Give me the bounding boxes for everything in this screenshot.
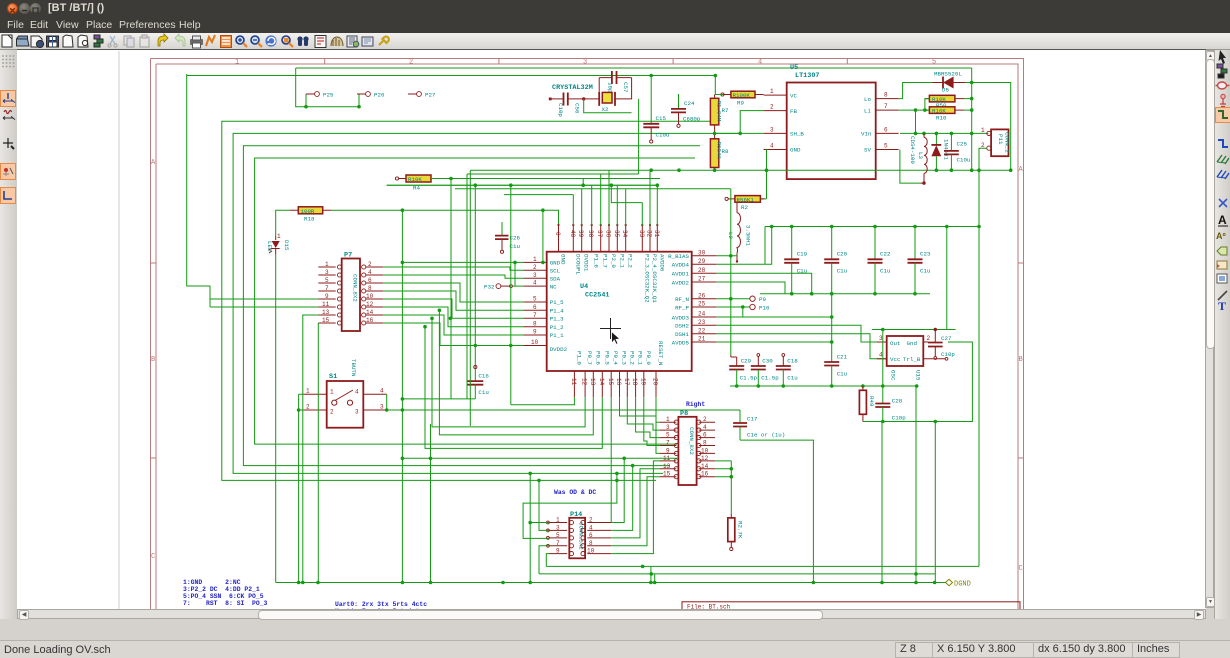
wire P25 drop (296, 68, 359, 107)
paper left edge (118, 51, 120, 609)
svg-text:10: 10 (701, 447, 709, 454)
resistor R10 (925, 107, 964, 122)
svg-text:P0_6: P0_6 (594, 351, 601, 365)
wire P14.4 right up (611, 466, 633, 531)
svg-text:2: 2 (330, 409, 334, 416)
wire C17 bottom (740, 440, 813, 582)
svg-text:SV: SV (864, 147, 871, 154)
svg-text:4: 4 (368, 269, 372, 276)
svg-text:SCL: SCL (550, 267, 561, 274)
svg-text:U5: U5 (790, 64, 798, 72)
svg-text:5: 5 (533, 296, 537, 303)
svg-text:FB: FB (790, 108, 797, 115)
svg-text:35: 35 (613, 230, 620, 238)
svg-text:10: 10 (531, 339, 539, 346)
wire P32 to NC (513, 285, 524, 287)
svg-text:A: A (151, 159, 156, 167)
resistor R18 (290, 207, 332, 223)
svg-text:DSH2: DSH2 (675, 323, 689, 330)
capacitor C57 (607, 71, 630, 93)
svg-text:C22: C22 (880, 251, 891, 258)
svg-text:LT1307: LT1307 (795, 72, 819, 80)
svg-text:9: 9 (556, 548, 560, 555)
svg-text:33: 33 (638, 230, 645, 238)
capacitor C23 (908, 227, 931, 294)
svg-text:R7: R7 (722, 107, 729, 114)
bus loop wire 4 (243, 146, 700, 466)
svg-text:C1u: C1u (837, 268, 847, 275)
svg-text:D5: D5 (942, 87, 949, 94)
wire long vertical x467 (466, 174, 468, 399)
wire chip pin20 to P8.9 (656, 397, 660, 453)
svg-text:C57: C57 (622, 82, 629, 93)
svg-text:12: 12 (581, 378, 588, 386)
svg-text:B: B (151, 356, 155, 364)
svg-text:1: 1 (306, 388, 310, 395)
svg-text:C1u: C1u (787, 375, 797, 382)
svg-text:GND: GND (560, 254, 567, 265)
svg-text:C29: C29 (741, 358, 752, 365)
wire P7.2 to U4 SCL (383, 267, 523, 270)
svg-text:P1_0: P1_0 (575, 351, 582, 365)
svg-text:C18: C18 (787, 358, 798, 365)
svg-text:CONN_2: CONN_2 (1004, 132, 1011, 153)
wire AVDD drop left (765, 170, 979, 264)
connector P8 (660, 410, 715, 485)
rail y385 (730, 386, 917, 583)
svg-text:AVDD3: AVDD3 (672, 314, 690, 321)
svg-text:P1_3: P1_3 (550, 316, 564, 323)
svg-text:RESET_N: RESET_N (657, 341, 664, 366)
svg-text:P2_1: P2_1 (618, 254, 625, 268)
resistor R8 (710, 133, 729, 170)
svg-text:1: 1 (330, 389, 334, 396)
svg-text:12: 12 (701, 455, 709, 462)
svg-text:MBRS520L: MBRS520L (934, 71, 962, 78)
svg-text:DCOUPL: DCOUPL (574, 254, 581, 275)
U4 bottom pin stubs (574, 371, 656, 397)
wire DSH1 to OSC (717, 334, 887, 359)
wire AVDD4 up (717, 227, 772, 265)
svg-text:5: 5 (932, 59, 936, 67)
connector P11 (981, 127, 1011, 156)
svg-text:1: 1 (770, 88, 774, 95)
wire S1 right to C17 (387, 409, 740, 411)
wire P14.5 left loop (523, 473, 617, 538)
svg-text:R56K1: R56K1 (737, 196, 755, 203)
svg-text:2: 2 (368, 261, 372, 268)
svg-text:22: 22 (698, 327, 706, 334)
wire chip pin14 (425, 327, 602, 449)
svg-text:A: A (1019, 166, 1024, 174)
wire crystal net (550, 78, 631, 99)
cursor crosshair (600, 318, 621, 339)
svg-text:P32: P32 (484, 283, 495, 290)
svg-text:U15: U15 (915, 370, 922, 381)
wire chip pin11 (511, 397, 575, 405)
svg-text:C27: C27 (941, 335, 952, 342)
wire S1 left link down (299, 394, 304, 582)
svg-text:C10p: C10p (892, 415, 906, 422)
svg-text:13: 13 (322, 309, 330, 316)
svg-text:L3: L3 (917, 152, 924, 159)
wire top rail down right (971, 68, 973, 170)
svg-text:2: 2 (589, 517, 593, 524)
diode D5 MBRS520L (932, 71, 966, 94)
wire Li net (899, 99, 972, 111)
wire second top rail (187, 75, 716, 77)
wire OSC feed from AVDD rail (946, 227, 948, 330)
svg-text:Vcc: Vcc (890, 356, 901, 363)
svg-text:C10u: C10u (656, 132, 670, 139)
svg-text:1: 1 (666, 416, 670, 423)
rail y565 (546, 227, 979, 567)
wire Lo up (899, 83, 933, 99)
svg-text:3:P2_2 DC 4:DD P2_1: 3:P2_2 DC 4:DD P2_1 (183, 586, 260, 593)
svg-text:R10K: R10K (932, 108, 946, 115)
svg-text:P27: P27 (425, 91, 436, 98)
svg-text:10: 10 (587, 548, 595, 555)
capacitor C24 (671, 94, 701, 127)
svg-text:C20: C20 (837, 251, 848, 258)
svg-text:2: 2 (306, 404, 310, 411)
push button S1 (303, 359, 386, 428)
svg-text:25: 25 (698, 301, 706, 308)
bus loop wire 2 (222, 121, 712, 480)
wire AVDD3 (717, 316, 832, 318)
rail y573 (539, 573, 935, 575)
svg-text:NC: NC (550, 283, 557, 290)
wire long vertical x451 (450, 179, 452, 399)
svg-text:C: C (1019, 565, 1023, 573)
svg-text:C: C (151, 553, 155, 561)
capacitor C21 (824, 354, 847, 387)
inductor L3 (909, 133, 927, 184)
svg-text:TBUTN: TBUTN (350, 359, 357, 377)
svg-text:CRYSTAL32M: CRYSTAL32M (552, 84, 593, 92)
capacitor C18 (776, 354, 798, 386)
svg-text:7: 7 (533, 312, 537, 319)
connector P32 (484, 283, 512, 290)
svg-text:S1: S1 (329, 373, 337, 381)
svg-text:C56: C56 (574, 103, 581, 114)
wire P14.3 left up (539, 480, 549, 530)
wire P7.8 staircase (383, 291, 523, 310)
svg-text:AVDD4: AVDD4 (672, 262, 690, 269)
svg-text:13: 13 (589, 378, 596, 386)
wire FB net (715, 111, 764, 134)
svg-text:P9: P9 (759, 296, 766, 303)
junction crystal (582, 97, 585, 100)
svg-text:3: 3 (533, 272, 537, 279)
svg-text:15: 15 (663, 471, 671, 478)
connector P7 (318, 252, 383, 332)
connector P9 (717, 296, 767, 303)
wire GND row (402, 261, 523, 263)
svg-text:C24: C24 (684, 100, 695, 107)
svg-text:R9: R9 (737, 100, 744, 107)
svg-text:3: 3 (355, 409, 359, 416)
capacitor C17 (733, 410, 785, 440)
capacitor C22 (868, 227, 891, 294)
wire to P7 pin11 (210, 299, 318, 307)
svg-text:16: 16 (615, 378, 622, 386)
svg-text:21: 21 (698, 336, 706, 343)
svg-text:2: 2 (927, 335, 931, 342)
svg-text:R2.7K: R2.7K (737, 521, 744, 539)
wire S1 right link (386, 394, 388, 410)
LED D15 (266, 233, 290, 255)
wire R9 feed (715, 76, 723, 95)
right tool column (1214, 50, 1230, 619)
U4 right pin stubs (692, 256, 717, 342)
svg-text:6: 6 (884, 126, 888, 133)
svg-text:28: 28 (698, 267, 706, 274)
svg-text:37: 37 (596, 230, 603, 238)
rail AVDD bottom (760, 293, 930, 295)
svg-text:Aº: Aº (1216, 231, 1226, 241)
svg-text:P25: P25 (323, 91, 334, 98)
svg-text:8: 8 (703, 440, 707, 447)
svg-text:Uart0: 2rx 3tx 5rts 4ctc: Uart0: 2rx 3tx 5rts 4ctc (335, 601, 427, 608)
svg-text:0: 0 (554, 232, 561, 236)
svg-text:38: 38 (587, 230, 594, 238)
capacitor C26 (495, 222, 520, 253)
svg-text:3: 3 (583, 59, 587, 67)
menu bar (0, 19, 1230, 33)
wire P14.10 to P8.11 (611, 461, 660, 554)
svg-text:1: 1 (235, 59, 239, 67)
capacitor C27 (928, 330, 955, 360)
svg-text:P0_3: P0_3 (621, 351, 628, 365)
wire long vertical x510 (510, 185, 512, 405)
svg-text:Right: Right (686, 401, 705, 408)
capacitor C15 (643, 76, 669, 144)
svg-text:P1_1: P1_1 (550, 332, 564, 339)
svg-text:CONN_8X2: CONN_8X2 (352, 274, 359, 302)
wire R49 C28 bottom (863, 422, 935, 583)
svg-text:P0_7: P0_7 (586, 351, 593, 365)
main GND rail (470, 169, 1010, 171)
wire chip pin19 to P8.7 (644, 397, 660, 445)
wire L2 to R_BIAS (717, 255, 737, 257)
wire DSH2 to OSC (717, 325, 887, 342)
svg-text:C10p: C10p (557, 103, 564, 117)
wire P14.9 left down (546, 554, 549, 567)
svg-text:RF_N: RF_N (675, 296, 689, 303)
wire P7.12 staircase (383, 307, 523, 327)
svg-text:P1_6: P1_6 (593, 254, 600, 268)
svg-text:A: A (1218, 213, 1227, 227)
svg-text:14: 14 (701, 463, 709, 470)
svg-text:Lo: Lo (864, 96, 871, 103)
svg-text:C1u: C1u (880, 268, 890, 275)
diode D6 1N4001 (931, 133, 949, 170)
wire RF feed column (455, 189, 731, 355)
wire mid horizontal (402, 457, 677, 459)
wire crystal branch (584, 99, 639, 174)
wire R18 branch down (542, 210, 544, 262)
wire C28 column feed (882, 330, 884, 387)
svg-text:P1_5: P1_5 (550, 299, 564, 306)
svg-text:9: 9 (533, 329, 537, 336)
svg-text:P0_5: P0_5 (603, 351, 610, 365)
svg-text:AVDD6: AVDD6 (658, 254, 665, 272)
connector P10 (717, 304, 770, 311)
svg-text:6: 6 (589, 532, 593, 539)
svg-text:7: 7 (325, 285, 329, 292)
wire P14.1 left (530, 522, 549, 524)
svg-text:5: 5 (325, 277, 329, 284)
wire P7.15 down (317, 323, 319, 583)
wire VIn rail (900, 132, 989, 134)
svg-text:P1_4: P1_4 (550, 308, 564, 315)
svg-text:2: 2 (409, 59, 413, 67)
IC U5 LT1307 (764, 64, 899, 179)
connector P27 (408, 91, 436, 98)
svg-text:5:PO_4 SSN 6:CK PO_5: 5:PO_4 SSN 6:CK PO_5 (183, 593, 264, 600)
svg-text:C28: C28 (892, 398, 903, 405)
title bar (0, 0, 1230, 19)
svg-text:DVDD1: DVDD1 (583, 254, 590, 272)
svg-text:R18: R18 (304, 216, 315, 223)
svg-text:9: 9 (325, 293, 329, 300)
svg-text:16: 16 (701, 471, 709, 478)
wire P7.6 staircase (383, 283, 523, 302)
svg-text:4: 4 (589, 524, 593, 531)
svg-text:1: 1 (325, 261, 329, 268)
crystal X2 (599, 92, 615, 113)
svg-text:C30: C30 (762, 358, 773, 365)
svg-text:P26: P26 (374, 91, 385, 98)
wire chip pin13 (439, 310, 593, 435)
wire U5 GND down (766, 150, 768, 171)
svg-text:6: 6 (703, 432, 707, 439)
wire Li branch down (915, 110, 917, 133)
wire P14.2 right up (611, 458, 624, 522)
svg-text:P1_2: P1_2 (550, 324, 564, 331)
svg-text:6: 6 (368, 277, 372, 284)
resistor R7 (710, 95, 729, 134)
svg-text:10p: 10p (607, 82, 614, 93)
svg-text:CONN_8X2: CONN_8X2 (688, 427, 695, 455)
svg-text:8: 8 (884, 92, 888, 99)
svg-text:T: T (1218, 299, 1226, 310)
bus loop wire 5 (255, 158, 695, 444)
svg-text:8: 8 (589, 540, 593, 547)
svg-text:U4: U4 (580, 283, 588, 291)
wire outer loop to P7 pin9 (187, 74, 319, 299)
svg-text:2: 2 (770, 104, 774, 111)
secondary gnd rails near crystal (387, 174, 659, 195)
svg-text:GND: GND (790, 147, 801, 154)
wire top rail (296, 67, 972, 69)
svg-text:X2: X2 (602, 106, 609, 113)
svg-text:100R: 100R (301, 208, 315, 215)
svg-text:P2_3_OSC32K_Q2: P2_3_OSC32K_Q2 (643, 254, 650, 303)
svg-text:27: 27 (698, 276, 706, 283)
svg-text:P2_0: P2_0 (610, 254, 617, 268)
svg-text:36: 36 (605, 230, 612, 238)
U4 left pin stubs (524, 262, 547, 345)
svg-text:Out: Out (890, 340, 900, 347)
wire long vertical x475 (474, 185, 476, 346)
left tool column (0, 50, 18, 619)
svg-text:26: 26 (698, 292, 706, 299)
svg-text:C1u: C1u (478, 389, 488, 396)
sheet symbol file BT.sch (682, 602, 1020, 632)
svg-text:1: 1 (533, 256, 537, 263)
wire chip pin17 to P8.3 (627, 397, 660, 430)
svg-text:C15: C15 (656, 115, 667, 122)
svg-text:P2_4_OSC32K_Q1: P2_4_OSC32K_Q1 (651, 254, 658, 303)
svg-text:P0_0: P0_0 (645, 351, 652, 365)
power symbol DGND (946, 579, 971, 588)
wire C21 column (831, 294, 833, 362)
wire P14.7 left down (539, 546, 549, 574)
frame column numbers (235, 59, 936, 67)
wire LED cathode to bottom rail (275, 255, 277, 583)
svg-text:C17: C17 (747, 416, 758, 423)
svg-text:P2_2: P2_2 (627, 254, 634, 268)
resistor R4 (395, 175, 451, 192)
svg-text:2: 2 (703, 416, 707, 423)
svg-text:CC2541: CC2541 (585, 292, 609, 300)
svg-text:32: 32 (646, 230, 653, 238)
connector P14 (547, 511, 612, 558)
connector P26 (357, 91, 385, 98)
wire RF_P drop (742, 307, 744, 317)
svg-text:DVDD2: DVDD2 (550, 346, 568, 353)
wire chip pin12 (432, 318, 585, 427)
wire OSC gnd loop (935, 342, 972, 422)
svg-text:3: 3 (770, 126, 774, 133)
frame column ticks (325, 59, 848, 65)
svg-text:R10: R10 (936, 115, 947, 122)
svg-text:11: 11 (322, 301, 330, 308)
svg-text:3: 3 (380, 404, 384, 411)
wire long vertical x402 (401, 210, 403, 582)
U4 top pin stubs (557, 224, 658, 252)
svg-text:C680p: C680p (683, 116, 701, 123)
P8 left pins (660, 422, 676, 477)
svg-text:4: 4 (533, 280, 537, 287)
svg-text:4: 4 (355, 389, 359, 396)
svg-text:C1u: C1u (837, 371, 847, 378)
wire x650 riser (651, 566, 655, 582)
svg-text:4: 4 (380, 388, 384, 395)
wire P7.4 to U4 SDA (383, 275, 523, 278)
wire chip pin16 to P8.1 (620, 397, 661, 422)
svg-text:10: 10 (366, 293, 374, 300)
junction on pin rows (449, 317, 453, 321)
svg-text:Gnd: Gnd (907, 340, 917, 347)
capacitor C30 (751, 354, 779, 386)
titleblock pin table text (183, 579, 268, 607)
svg-text:R2: R2 (741, 204, 748, 211)
capacitor C28 (875, 386, 906, 422)
svg-text:B: B (1019, 356, 1023, 364)
svg-text:24: 24 (698, 311, 706, 318)
connector P25 (306, 91, 334, 98)
wire P7.10 staircase (383, 299, 523, 318)
rail AVDD top (765, 226, 979, 228)
svg-text:LED: LED (266, 241, 273, 252)
wire R2 area (760, 170, 766, 199)
svg-text:19: 19 (639, 378, 646, 386)
resistor R12 (728, 514, 744, 551)
resistor R49 (859, 386, 875, 422)
